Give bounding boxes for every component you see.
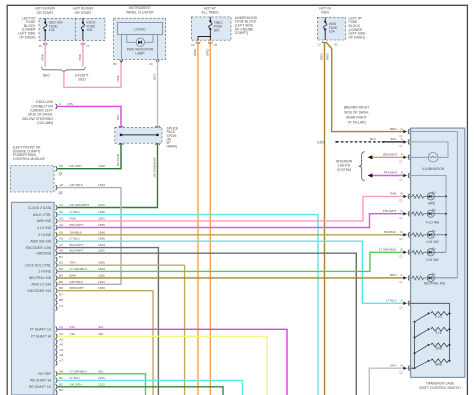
svg-text:4 LO IND: 4 LO IND — [37, 226, 52, 230]
wire BLK/WHT 1551 ground — [57, 253, 356, 395]
svg-text:C2: C2 — [59, 190, 63, 194]
behind right side of dash label — [344, 105, 369, 124]
DLC terminal 2 — [56, 102, 74, 109]
module pin A7 ENCODER LOW — [26, 243, 105, 250]
svg-text:PANEL CLUSTER: PANEL CLUSTER — [126, 10, 154, 14]
switch internal: ground A to lamp — [409, 142, 448, 157]
module pin A6 (empty) (connector 2) — [56, 353, 64, 360]
svg-text:H: H — [401, 363, 403, 367]
module pin A3 (empty) (connector 2) — [56, 337, 64, 344]
svg-text:BLK: BLK — [391, 137, 398, 141]
svg-text:DK GRN/WHT: DK GRN/WHT — [153, 157, 157, 177]
label GRY H — [390, 363, 403, 367]
PCM pin 18 — [56, 183, 106, 194]
svg-text:ORG: ORG — [193, 48, 197, 56]
svg-text:+5V REF: +5V REF — [37, 372, 51, 376]
svg-text:1695: 1695 — [98, 237, 105, 241]
switch terminal at y=234.8 — [399, 232, 409, 241]
rotary position 4 HI — [414, 327, 451, 338]
wire PPL/WHT 1565 to switch C — [57, 214, 403, 228]
svg-text:NEUTRAL IND: NEUTRAL IND — [29, 276, 52, 280]
wire LT BLU 1296 axle ctrl — [57, 215, 318, 395]
svg-text:LT GRN/BLK: LT GRN/BLK — [379, 248, 398, 252]
svg-text:NEUTRAL IND: NEUTRAL IND — [424, 282, 446, 286]
wire ORG left — [193, 40, 198, 395]
wire LT BLU 2231 rr shaft hi — [57, 380, 242, 395]
svg-text:PPL: PPL — [116, 114, 120, 120]
svg-text:COMPT): COMPT) — [235, 31, 248, 35]
svg-text:LT GRN/BLK: LT GRN/BLK — [70, 267, 89, 271]
resistor + LED NEUTRAL IND — [409, 273, 457, 286]
svg-text:2-HI IND: 2-HI IND — [426, 258, 439, 262]
svg-text:4-HI IND: 4-HI IND — [426, 240, 439, 244]
svg-text:18: 18 — [59, 183, 63, 187]
module pin B3 (empty) (connector 2) — [56, 388, 64, 395]
module pin A6 AWD SW SIG — [30, 237, 105, 244]
svg-text:A8: A8 — [59, 249, 63, 253]
svg-text:CLASS 2 DATA: CLASS 2 DATA — [28, 206, 52, 210]
svg-text:B1: B1 — [59, 255, 63, 259]
svg-text:A2: A2 — [59, 332, 63, 336]
svg-text:OR START: OR START — [37, 11, 54, 15]
svg-text:TAN/BLK: TAN/BLK — [384, 230, 398, 234]
switch terminal at y=141.9 — [399, 139, 409, 148]
svg-text:A6: A6 — [59, 237, 63, 241]
wire PNK 1561 to switch B — [57, 196, 403, 221]
svg-text:LT GRN/BLK: LT GRN/BLK — [70, 369, 89, 373]
svg-text:F1: F1 — [86, 44, 90, 48]
transfer case shift control module box — [12, 202, 55, 395]
svg-text:C1: C1 — [59, 304, 63, 308]
module pin B6 ENCODER SIG — [28, 286, 106, 293]
splice pack label — [167, 127, 180, 149]
svg-text:RUN: RUN — [321, 11, 329, 15]
svg-text:2231: 2231 — [98, 376, 105, 380]
svg-text:10A: 10A — [49, 28, 56, 32]
switch internal: E dimmer bus — [409, 176, 446, 253]
left I/P fuse block box — [39, 18, 105, 40]
wire BLK/WHT 1594 encoder low — [57, 248, 158, 395]
svg-text:CONTROL MODULE: CONTROL MODULE — [13, 157, 46, 161]
svg-text:GRY: GRY — [390, 363, 397, 367]
svg-text:1563: 1563 — [98, 267, 105, 271]
svg-text:BLK/WHT: BLK/WHT — [70, 249, 84, 253]
svg-text:PNK: PNK — [116, 74, 120, 81]
svg-text:A2: A2 — [59, 210, 63, 214]
svg-text:SHIFT CONTROL SWITCH: SHIFT CONTROL SWITCH — [419, 386, 461, 390]
svg-text:4 HI: 4 HI — [436, 331, 442, 335]
module pin B8 (empty) — [56, 298, 64, 305]
svg-text:BRN: BRN — [320, 53, 324, 60]
svg-text:2WD: 2WD — [435, 347, 443, 351]
powertrain control module box — [11, 166, 55, 193]
svg-text:AWD SW SIG: AWD SW SIG — [30, 240, 51, 244]
svg-text:F5: F5 — [39, 44, 43, 48]
svg-text:A6: A6 — [149, 62, 153, 66]
switch terminal at y=277.9 — [399, 275, 409, 284]
svg-text:DK GRN/WHT: DK GRN/WHT — [70, 203, 90, 207]
rotary position 4 LO — [414, 312, 451, 323]
switch terminal at y=252.3 — [399, 250, 409, 259]
wire DK GRN/WHT splice to module A1 — [57, 143, 157, 207]
wire ORG right — [206, 40, 211, 395]
node HOT IN RUN OR START (SEO IGN) — [35, 7, 55, 15]
svg-text:BLK: BLK — [370, 137, 377, 141]
splice pack SP205 box — [115, 126, 162, 145]
svg-text:2: 2 — [59, 102, 61, 106]
svg-text:A4: A4 — [59, 343, 63, 347]
svg-text:LT BLU: LT BLU — [386, 299, 396, 303]
svg-text:PNK: PNK — [40, 53, 44, 60]
rotary common bus to H — [409, 322, 415, 368]
svg-text:RR SHAFT HI: RR SHAFT HI — [30, 379, 51, 383]
wire TAN/BLK 1566 to switch D — [57, 234, 403, 236]
wire GRY cluster to splice — [153, 62, 158, 128]
svg-text:ENCODER SIG: ENCODER SIG — [28, 289, 52, 293]
svg-text:(BEHIND RIGHT: (BEHIND RIGHT — [344, 105, 369, 109]
svg-text:DK GRN: DK GRN — [70, 382, 82, 386]
label TAN/BLK D — [384, 230, 404, 234]
left I/P fuse block label (right) — [349, 16, 367, 39]
switch internal: G feed bus — [409, 132, 457, 278]
svg-text:DK GRN: DK GRN — [116, 154, 120, 166]
transfer case shift control switch box — [411, 128, 465, 377]
svg-text:A6: A6 — [59, 353, 63, 357]
module pin B4 NEUTRAL IND — [29, 273, 105, 280]
terminal F5 — [39, 43, 48, 47]
svg-text:1133: 1133 — [98, 203, 105, 207]
svg-text:PNK: PNK — [390, 192, 397, 196]
svg-text:BRN: BRN — [390, 273, 397, 277]
svg-text:4-LO IND: 4-LO IND — [426, 221, 440, 225]
svg-text:A7: A7 — [59, 359, 63, 363]
svg-text:10A: 10A — [329, 30, 336, 34]
svg-text:YEL: YEL — [70, 332, 76, 336]
svg-text:C6: C6 — [191, 43, 195, 47]
wire PPL 401 ft shaft lo — [57, 329, 287, 395]
module pin A1 CLASS 2 DATA — [28, 203, 105, 210]
svg-text:1561: 1561 — [98, 216, 105, 220]
svg-text:G200: G200 — [317, 140, 325, 144]
svg-text:AWD IND: AWD IND — [37, 219, 52, 223]
module pin A2 FT SHAFT HI (connector 2) — [31, 332, 104, 339]
svg-text:B: B — [401, 192, 403, 196]
svg-text:2222: 2222 — [98, 382, 105, 386]
svg-text:LT BLU: LT BLU — [70, 376, 80, 380]
module pin A5 4 HI IND — [38, 230, 105, 237]
bus junction dots — [445, 195, 447, 235]
module pin A7 (empty) (connector 2) — [56, 359, 64, 366]
module pin A8 GROUND — [36, 249, 105, 256]
svg-text:A5: A5 — [59, 348, 63, 352]
cluster internal wiring — [121, 35, 157, 60]
svg-text:B4: B4 — [59, 273, 63, 277]
svg-text:400: 400 — [98, 332, 103, 336]
svg-text:D2: D2 — [334, 42, 338, 46]
svg-text:LT BLU: LT BLU — [70, 210, 80, 214]
lamp 4WD indicator — [127, 38, 154, 55]
svg-text:PPL/WHT: PPL/WHT — [384, 171, 398, 175]
resistor + LED AWD — [409, 191, 446, 205]
svg-text:LAMP: LAMP — [135, 51, 145, 55]
label BRN G — [390, 127, 404, 131]
module pin B7 (empty) — [56, 292, 64, 299]
svg-text:PPL: PPL — [70, 325, 76, 329]
wire LT GRN/BLK 431 +5V ref — [57, 374, 145, 395]
left I/P fuse block label — [18, 16, 36, 39]
svg-text:OR START: OR START — [75, 11, 92, 15]
svg-text:A7: A7 — [59, 243, 63, 247]
wire BRN/WHT 1559 encoder sig — [57, 291, 153, 395]
svg-text:B5: B5 — [59, 280, 63, 284]
svg-text:PNK: PNK — [70, 216, 77, 220]
svg-text:AWD: AWD — [435, 362, 443, 366]
wire LT BLU 1695 to switch A — [57, 241, 403, 303]
svg-text:TAN: TAN — [70, 261, 76, 265]
svg-text:2 HI IND: 2 HI IND — [38, 270, 52, 274]
switch terminal at y=213.7 — [399, 211, 409, 220]
svg-text:ENCODER LOW: ENCODER LOW — [26, 246, 52, 250]
module pin A2 AXLE CTRL — [33, 210, 105, 217]
module pin A4 4 LO IND — [37, 223, 105, 230]
fuse IGN E FUSE 10A — [81, 18, 96, 40]
wire LT GRN/BLK 1563 to switch B — [57, 252, 403, 271]
data link connector label — [22, 100, 53, 125]
svg-text:AXLE CTRL: AXLE CTRL — [33, 213, 52, 217]
lamp illumination — [409, 153, 445, 172]
svg-text:OF DASH): OF DASH) — [349, 35, 365, 39]
wire PNK from IGN E fuse — [78, 40, 83, 67]
svg-text:A1: A1 — [59, 203, 63, 207]
svg-text:TRANSFER CASE: TRANSFER CASE — [426, 382, 455, 386]
svg-text:BLK/WHT: BLK/WHT — [70, 243, 84, 247]
module pin A1 FT SHAFT LO (connector 2) — [30, 325, 104, 332]
svg-text:1694: 1694 — [98, 280, 105, 284]
wire BLK A — [370, 137, 403, 142]
wire PNK to cluster — [64, 61, 121, 88]
wire BRN 1560 to switch C — [57, 277, 403, 279]
svg-text:SEO: SEO — [43, 74, 51, 78]
svg-text:4 HI IND: 4 HI IND — [38, 233, 52, 237]
node HOT IN RUN OR START (IGN E) — [73, 7, 93, 15]
svg-text:BRN/WHT: BRN/WHT — [383, 152, 398, 156]
cluster terminal B9 — [113, 60, 123, 66]
svg-text:GRY: GRY — [153, 73, 157, 80]
svg-text:1566: 1566 — [98, 230, 105, 234]
label LT BLU A — [386, 299, 403, 303]
module pin B3 2 HI IND — [38, 267, 105, 274]
wire DK GRN 2222 rr shaft lo — [57, 387, 223, 395]
svg-text:C8: C8 — [214, 43, 218, 47]
ground G200 — [317, 140, 384, 144]
fuse SEO IGN FUSE 10A — [44, 18, 64, 40]
svg-text:PPL: PPL — [68, 102, 74, 106]
svg-text:PPL/WHT: PPL/WHT — [383, 209, 397, 213]
svg-text:431: 431 — [98, 369, 103, 373]
PCM pin 58 — [56, 164, 106, 175]
svg-text:A3: A3 — [59, 337, 63, 341]
module pin B1 (empty) — [56, 255, 64, 262]
svg-text:1049: 1049 — [98, 164, 105, 168]
svg-text:B1: B1 — [59, 376, 63, 380]
svg-text:C1: C1 — [59, 171, 63, 175]
svg-text:DK GRN: DK GRN — [70, 164, 82, 168]
svg-text:AWD LO SIG: AWD LO SIG — [31, 283, 51, 287]
rotary switch sense bus LT BLU A — [409, 303, 450, 361]
resistor + LED 2-HI IND — [409, 247, 446, 262]
svg-text:"A" PILLAR): "A" PILLAR) — [347, 120, 365, 124]
svg-text:ILLUMINATION: ILLUMINATION — [422, 167, 445, 171]
svg-text:B2: B2 — [59, 382, 63, 386]
wire GRY/BLK PCM to module B5 — [57, 188, 121, 285]
svg-text:BRN: BRN — [390, 127, 397, 131]
svg-text:4 LO: 4 LO — [435, 315, 442, 319]
resistor + LED 4-LO IND — [409, 209, 446, 225]
label LT GRN/BLK B — [379, 248, 403, 252]
svg-text:A3: A3 — [59, 216, 63, 220]
svg-text:FT SHAFT HI: FT SHAFT HI — [31, 335, 51, 339]
svg-text:F: F — [401, 152, 403, 156]
terminal C2 — [317, 42, 326, 47]
module pin A5 (empty) (connector 2) — [56, 348, 64, 355]
module pin B1 RR SHAFT HI (connector 2) — [30, 376, 105, 383]
svg-text:GROUND: GROUND — [36, 252, 52, 256]
svg-text:C2: C2 — [317, 42, 321, 46]
svg-text:A1: A1 — [59, 325, 63, 329]
logic box — [118, 23, 163, 35]
fuse TREC FUSE 30A — [198, 17, 223, 40]
rotary position 2WD — [414, 343, 451, 354]
switch terminal at y=368.2 — [399, 366, 409, 375]
brace SEO / EXCEPT SEO — [42, 67, 89, 82]
svg-text:58: 58 — [59, 164, 63, 168]
module pin B5 AWD LO SIG — [31, 280, 105, 287]
interior lights system label — [336, 159, 353, 171]
arrow + wire BRN/WHT F — [368, 152, 404, 159]
module pin B2 RR SHAFT LO (connector 2) — [29, 382, 105, 389]
svg-text:ORG: ORG — [206, 48, 210, 56]
wire BRN down to bottom — [320, 42, 325, 395]
terminal F1 — [81, 43, 90, 47]
svg-text:A4: A4 — [59, 223, 63, 227]
svg-text:A8: A8 — [59, 369, 63, 373]
arrow + wire PPL/WHT E — [368, 171, 404, 178]
terminal C6 — [191, 42, 200, 47]
svg-text:SEO: SEO — [78, 78, 86, 82]
switch terminal at y=196.4 — [399, 194, 409, 203]
node HOT AT ALL TIMES — [201, 6, 219, 14]
svg-text:1296: 1296 — [98, 210, 105, 214]
wire TAN 1556 lock sol ctrl — [57, 265, 184, 395]
svg-text:PPL/WHT: PPL/WHT — [70, 223, 84, 227]
svg-text:LOCK SOL CTRL: LOCK SOL CTRL — [25, 264, 52, 268]
svg-text:SYSTEM: SYSTEM — [337, 168, 351, 172]
instrument panel cluster box — [114, 18, 166, 59]
module pin B2 LOCK SOL CTRL — [25, 261, 106, 268]
switch terminal at y=175.5 — [399, 173, 409, 182]
label PNK B — [390, 192, 402, 196]
label BRN C — [390, 273, 404, 277]
svg-text:1565: 1565 — [98, 223, 105, 227]
module pin A4 (empty) (connector 2) — [56, 343, 64, 350]
svg-text:10A: 10A — [87, 28, 94, 32]
instrument panel cluster title — [126, 6, 154, 14]
wire BRN to switch G — [325, 42, 403, 132]
wire GRY H off page — [369, 368, 403, 395]
underhood fuse block box — [191, 17, 231, 40]
svg-text:RR SHAFT LO: RR SHAFT LO — [29, 385, 52, 389]
svg-text:30A: 30A — [214, 28, 221, 32]
node HOT IN RUN — [319, 6, 331, 14]
terminal D2 — [334, 42, 338, 46]
svg-text:GRY/BLK: GRY/BLK — [70, 280, 84, 284]
svg-text:1559: 1559 — [98, 286, 105, 290]
cluster terminal A6 — [149, 60, 159, 66]
svg-text:B2: B2 — [59, 261, 63, 265]
svg-text:FT SHAFT LO: FT SHAFT LO — [30, 328, 52, 332]
svg-text:OF DASH): OF DASH) — [19, 35, 35, 39]
svg-text:1551: 1551 — [98, 249, 105, 253]
svg-text:TAN/BLK: TAN/BLK — [70, 230, 84, 234]
svg-text:B9: B9 — [113, 62, 117, 66]
underhood fuse block label — [235, 16, 258, 35]
resistor + LED 4-HI IND — [409, 230, 446, 244]
svg-text:B8: B8 — [59, 298, 63, 302]
wire DK GRN splice to PCM — [57, 143, 121, 169]
svg-text:NEAR RIGHT: NEAR RIGHT — [346, 115, 367, 119]
wire PNK from SEO IGN fuse — [40, 40, 45, 67]
svg-text:B3: B3 — [59, 388, 63, 392]
svg-text:B6: B6 — [59, 286, 63, 290]
svg-text:PNK: PNK — [78, 53, 82, 60]
svg-text:LOGIC: LOGIC — [134, 28, 146, 32]
transfer case shift control switch label — [419, 382, 461, 391]
brace interior lights — [359, 152, 365, 181]
powertrain control module label — [13, 146, 46, 161]
svg-text:B: B — [401, 248, 403, 252]
switch terminal at y=303.3 — [399, 301, 409, 310]
svg-text:B7: B7 — [59, 292, 63, 296]
svg-text:401: 401 — [98, 325, 103, 329]
svg-text:1594: 1594 — [98, 243, 105, 247]
svg-text:GRY/BLK: GRY/BLK — [70, 183, 84, 187]
rotary position AWD — [414, 359, 451, 369]
svg-text:A5: A5 — [59, 230, 63, 234]
svg-text:COLUMN): COLUMN) — [37, 121, 53, 125]
svg-text:B3: B3 — [59, 267, 63, 271]
svg-text:BRN: BRN — [325, 53, 329, 60]
module pin C1 (empty) — [56, 304, 64, 311]
svg-text:LT BLU: LT BLU — [70, 237, 80, 241]
switch terminal at y=131.6 — [399, 129, 409, 138]
svg-text:BRN/WHT: BRN/WHT — [70, 286, 85, 290]
svg-text:AWD: AWD — [428, 202, 436, 206]
svg-text:HARN): HARN) — [167, 145, 177, 149]
svg-text:1560: 1560 — [98, 273, 105, 277]
4WD fuse box — [317, 17, 345, 40]
svg-text:ALL TIMES: ALL TIMES — [201, 11, 219, 15]
svg-text:SIDE OF DASH,: SIDE OF DASH, — [344, 110, 369, 114]
svg-text:BRN: BRN — [70, 273, 77, 277]
terminal C8 — [208, 42, 218, 47]
label PPL/WHT C — [383, 209, 404, 213]
switch terminal at y=157.3 — [399, 155, 409, 164]
wire PPL DLC to splice — [57, 106, 121, 127]
svg-text:1556: 1556 — [98, 261, 105, 265]
svg-text:1694: 1694 — [98, 183, 105, 187]
fuse 4WD FUSE 10A — [324, 17, 339, 40]
svg-text:E: E — [401, 171, 403, 175]
